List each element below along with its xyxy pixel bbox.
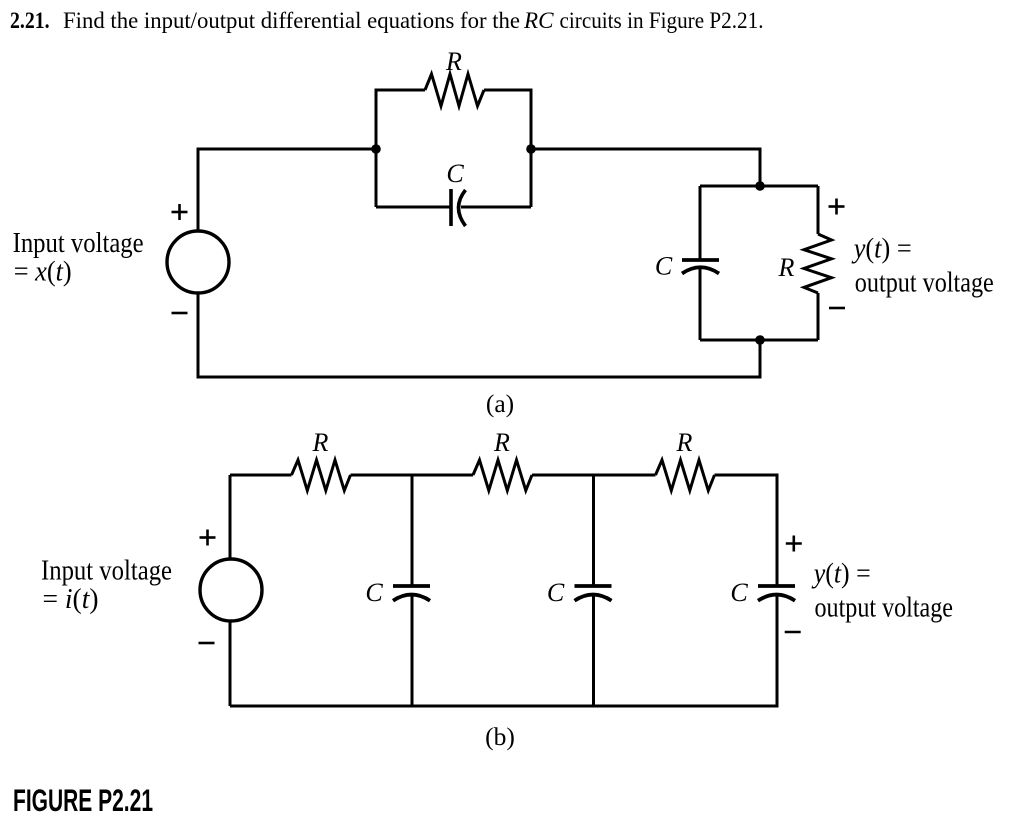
wire bottom of shunt capacitor branch bbox=[699, 268, 702, 340]
wire top rail segment 4 bbox=[715, 474, 778, 477]
plus mark at output (a) bbox=[829, 199, 845, 215]
minus mark at output (b) bbox=[785, 631, 801, 634]
bottom wire of circuit (a) bbox=[198, 293, 760, 377]
wire top of output section bbox=[700, 185, 818, 188]
capacitor C1 (b) bbox=[393, 586, 430, 601]
plus mark at output (b) bbox=[786, 536, 802, 552]
svg-text:Input voltage: Input voltage bbox=[13, 228, 144, 259]
svg-text:C: C bbox=[365, 578, 383, 607]
bottom rail of circuit (b) bbox=[230, 705, 777, 708]
node D dot (bottom of output block) bbox=[755, 335, 765, 345]
node C dot (top of output block) bbox=[755, 181, 765, 191]
wire output block bottom to main bottom bbox=[759, 340, 762, 379]
wire source top up to top rail bbox=[229, 475, 232, 559]
capacitor C2 (b) bbox=[575, 586, 612, 601]
wire bottom of output block bbox=[700, 339, 818, 342]
svg-text:output voltage: output voltage bbox=[855, 268, 994, 299]
wire bottom of output resistor branch bbox=[817, 293, 820, 340]
resistor R (parallel block top) bbox=[425, 74, 484, 106]
svg-text:y(t) =: y(t) = bbox=[851, 234, 912, 265]
plus mark at source IS1 bbox=[200, 530, 216, 546]
resistor R3 (b) bbox=[656, 460, 715, 491]
svg-text:circuits in Figure P2.21.: circuits in Figure P2.21. bbox=[560, 8, 764, 33]
wire left side of parallel RC block bbox=[376, 90, 425, 207]
node A dot bbox=[371, 144, 381, 154]
svg-text:(a): (a) bbox=[486, 389, 514, 418]
wire block bottom left to capacitor bbox=[376, 206, 451, 209]
wire node B to right section bbox=[531, 149, 760, 186]
resistor R2 (b) bbox=[473, 460, 532, 491]
wire top rail segment 3 bbox=[532, 474, 656, 477]
svg-text:FIGURE P2.21: FIGURE P2.21 bbox=[13, 783, 153, 818]
svg-text:output voltage: output voltage bbox=[815, 593, 954, 624]
wire top of capacitor branch C1 bbox=[411, 474, 414, 587]
minus mark at source VS1 bbox=[172, 312, 188, 315]
capacitor C (output shunt) bbox=[682, 260, 719, 274]
svg-text:C: C bbox=[547, 578, 565, 607]
wire source top to node A bbox=[198, 149, 376, 231]
capacitor C (parallel block bottom) bbox=[451, 189, 466, 226]
resistor R1 (b) bbox=[292, 460, 351, 491]
svg-text:R: R bbox=[493, 428, 510, 457]
wire top of capacitor branch C3 (right edge) bbox=[776, 474, 779, 587]
minus mark at output (a) bbox=[829, 307, 845, 310]
wire top of capacitor branch C2 bbox=[592, 474, 595, 587]
svg-text:C: C bbox=[446, 159, 464, 188]
wire top rail segment 1 bbox=[230, 474, 292, 477]
svg-text:C: C bbox=[655, 252, 673, 281]
resistor R (output) bbox=[804, 234, 832, 293]
svg-text:R: R bbox=[445, 47, 462, 76]
capacitor C3 (b) bbox=[758, 586, 795, 601]
svg-text:y(t) =: y(t) = bbox=[811, 559, 871, 590]
current source IS1 bbox=[200, 559, 262, 621]
wire top rail segment 2 bbox=[351, 474, 474, 477]
node B dot bbox=[526, 144, 536, 154]
svg-text:= i(t): = i(t) bbox=[43, 584, 99, 615]
wire top of output resistor branch bbox=[817, 186, 820, 234]
minus mark at source IS1 bbox=[199, 642, 215, 645]
wire bottom of capacitor branch C1 bbox=[411, 595, 414, 708]
wire bottom of capacitor branch C3 bbox=[776, 595, 779, 708]
voltage source VS1 bbox=[167, 231, 229, 293]
svg-text:Input voltage: Input voltage bbox=[41, 556, 172, 587]
svg-text:R: R bbox=[778, 253, 795, 282]
wire capacitor to block bottom right bbox=[461, 206, 531, 209]
wire resistor to right side of block bbox=[484, 90, 531, 207]
svg-text:2.21.: 2.21. bbox=[10, 8, 50, 34]
svg-text:Find the input/output differen: Find the input/output differential equat… bbox=[63, 8, 520, 33]
svg-text:= x(t): = x(t) bbox=[14, 257, 72, 288]
wire source bottom to bottom rail bbox=[229, 621, 232, 706]
svg-text:C: C bbox=[730, 578, 748, 607]
svg-text:R: R bbox=[676, 428, 693, 457]
svg-text:RC: RC bbox=[523, 8, 554, 33]
wire bottom of capacitor branch C2 bbox=[592, 595, 595, 708]
svg-text:(b): (b) bbox=[485, 722, 515, 751]
wire top of shunt capacitor branch bbox=[699, 186, 702, 260]
svg-text:R: R bbox=[312, 428, 329, 457]
plus mark at source VS1 bbox=[172, 204, 188, 220]
